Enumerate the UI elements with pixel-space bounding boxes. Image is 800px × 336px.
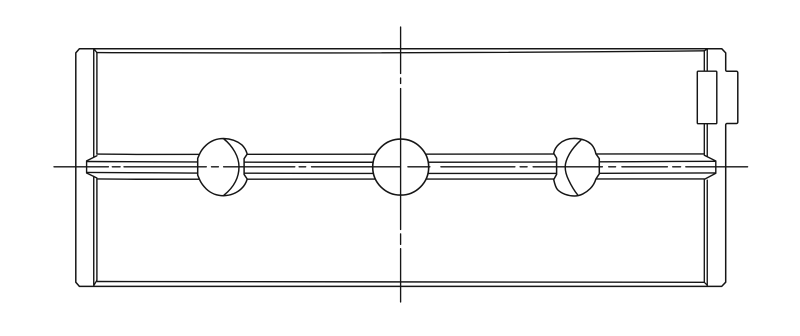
central oil hole bbox=[373, 139, 429, 195]
right inner face edge bbox=[703, 51, 705, 282]
oil hole dome right: silhouette bbox=[554, 138, 600, 196]
oil groove bottom inner edge bbox=[87, 172, 716, 173]
bore far-rim top edge bbox=[97, 51, 704, 53]
left inner corner chamfers bbox=[94, 49, 97, 285]
locating lug front view bbox=[697, 71, 717, 124]
oil groove top outer edge bbox=[97, 154, 704, 155]
bore near-rim bottom edge bbox=[97, 282, 704, 283]
oil groove end notch in right strip bbox=[704, 155, 716, 179]
right parting-face strip edge bbox=[706, 49, 708, 286]
right inner corner chamfers bbox=[704, 49, 707, 285]
bearing shell outer outline with locating-lug step bbox=[76, 49, 738, 287]
vertical centerline (dash-dot) bbox=[400, 27, 402, 302]
left parting-face strip edge bbox=[93, 49, 95, 286]
left inner face edge bbox=[96, 53, 98, 281]
horizontal centerline (dash-dot) bbox=[54, 166, 748, 168]
oil groove bottom outer edge bbox=[97, 179, 704, 180]
oil hole dome left: silhouette bbox=[198, 139, 248, 196]
oil groove end notch in left strip bbox=[87, 156, 97, 178]
oil hole dome right: rim arc bbox=[565, 140, 581, 195]
oil hole dome left: rim arc bbox=[224, 139, 239, 195]
oil groove top inner edge bbox=[87, 160, 716, 163]
